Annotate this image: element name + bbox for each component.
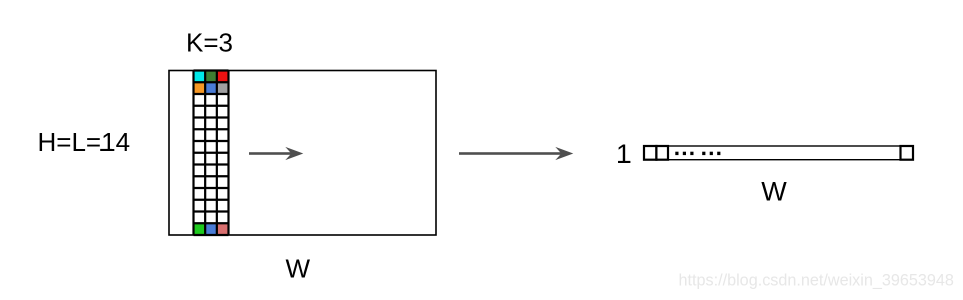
kernel column colored cells row2: orange, blue, gray <box>194 82 229 94</box>
svg-text:https://blog.csdn.net/weixin_3: https://blog.csdn.net/weixin_39653948 <box>679 272 954 290</box>
ellipsis dots inside bar <box>675 152 720 155</box>
output row vector bar <box>644 146 913 160</box>
svg-text:W: W <box>286 253 311 283</box>
output bar last cell (bold) <box>901 146 914 160</box>
output bar first cell (bold) <box>644 146 656 160</box>
svg-text:W: W <box>761 177 787 207</box>
inner sliding arrow <box>249 147 303 160</box>
svg-text:1: 1 <box>616 139 631 169</box>
output bar second cell (bold) <box>656 146 668 160</box>
transform arrow (between figures) <box>459 147 573 160</box>
kernel column colored cells row14: green, blue, salmon <box>194 223 229 235</box>
watermark <box>679 272 954 290</box>
label K=3 <box>186 27 233 57</box>
label W (right, under bar) <box>761 177 787 207</box>
label W (left, under rectangle) <box>286 253 311 283</box>
svg-text:K=3: K=3 <box>186 27 233 57</box>
svg-text:H=L=14: H=L=14 <box>38 127 131 157</box>
label 1 (row count of output) <box>616 139 631 169</box>
kernel column colored cells row1: cyan, green, red <box>194 71 229 83</box>
label H=L=14 <box>38 127 131 157</box>
kernel grid 3x14 lines <box>194 71 229 236</box>
input feature map rectangle <box>169 71 436 236</box>
